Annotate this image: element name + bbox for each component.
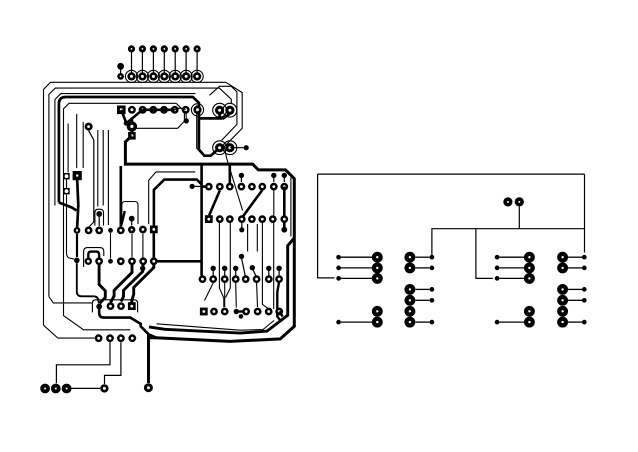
pad row y=230: [85, 226, 158, 235]
right half: power rectangle outline: [318, 174, 585, 278]
inner thick contour right-bottom: [149, 238, 294, 333]
donut row y=186.6: [205, 183, 288, 191]
outer board contour 1: [44, 82, 243, 338]
dumbbell dot below donut241: [239, 222, 244, 232]
thick trace donut219 to square208: [209, 191, 220, 216]
thin link donut273 down: [273, 191, 275, 216]
wire donut110 to big dot2: [56, 342, 110, 383]
connector block K2 pads: [404, 252, 434, 328]
board contour 5: [64, 103, 185, 329]
thick trace square153 down to row261: [154, 233, 202, 261]
clearance around thick vertical: [197, 105, 205, 156]
connector block K4 pads: [557, 252, 587, 328]
big donut pair lower with clearance: [213, 141, 237, 155]
small square pads pair left: [63, 173, 69, 194]
thick elbow trace E1: [99, 265, 105, 304]
clearance arch around pair: [84, 248, 104, 267]
bottom donut pad 104: [100, 384, 108, 392]
thick trace donut279 row311 to edge: [279, 312, 283, 317]
main thick board outline trace: [125, 136, 294, 342]
thin links rows 279-311: [205, 283, 258, 308]
inner contour hexagon: [209, 86, 237, 140]
trace from donut down: [89, 131, 94, 227]
connector block K1 pads: [336, 252, 382, 328]
big via donut C1: [127, 121, 137, 131]
inner section box outline: [154, 180, 202, 226]
thin verticals mid-left: [98, 130, 109, 225]
square pad P1: [117, 106, 126, 115]
thin links row219 to row268: [219, 223, 273, 309]
thick arch joining donuts 88-99: [88, 252, 99, 259]
wire to dot right of lower pair: [230, 145, 249, 150]
thick trace donut279 down right: [277, 282, 280, 320]
thick elbow trace E2: [111, 264, 133, 303]
thick trace down to donut 120: [120, 166, 123, 227]
thick stub second: [121, 211, 124, 225]
bus wire horizontal: [432, 207, 585, 279]
big donut pair top with clearance: [213, 103, 237, 117]
stub to donut row186: [202, 185, 205, 188]
clearance arch around thick pair: [122, 202, 138, 226]
thick vertical bus mid: [200, 165, 203, 276]
dumbbell dot under donut6: [184, 111, 189, 124]
dumbbell dot above donut 131: [129, 216, 135, 226]
pad row y=219: [205, 215, 288, 223]
bottom center donut pad: [144, 383, 153, 392]
donut row y=338: [95, 334, 137, 342]
clearance arch around dumbbell 99: [95, 209, 104, 225]
pad row y=279 dumbbells: [199, 254, 283, 283]
header connector J1 top dots: [128, 45, 201, 52]
dumbbell dot above donut 99: [96, 211, 102, 226]
thick elbow trace E3: [121, 264, 143, 302]
donut pads row2: [128, 106, 190, 114]
clearance contour mid-section bottom: [157, 321, 275, 331]
square pad under big via: [128, 132, 136, 140]
clearance verticals below row219: [248, 224, 258, 252]
wire big dot3 to donut104: [70, 387, 100, 389]
wire donut120 to donut104: [105, 342, 121, 384]
thick trace square to via chain: [121, 110, 174, 136]
test point pair TP1: [117, 63, 124, 80]
wires around square pads: [67, 114, 84, 259]
IC row pads y=110: [117, 104, 204, 116]
power pad pair: [503, 197, 524, 206]
header J1 bottom donut pads with clearance: [125, 70, 203, 82]
thick stub down to bottom donut: [147, 334, 150, 383]
three big dots bottom left: [40, 384, 71, 394]
connector block K3 pads: [495, 252, 535, 328]
thick diagonal donut262 to donut241: [243, 190, 263, 217]
big filled square pad: [73, 171, 82, 180]
clearance outline around pad group: [92, 300, 137, 313]
pad group y=306: [96, 302, 135, 310]
thin link donut5-donut6: [175, 108, 186, 110]
header J1 vertical wires: [132, 51, 198, 73]
board contour 3: [55, 94, 196, 206]
thick contour trace 4: [59, 97, 230, 211]
square pad row230: [150, 226, 158, 234]
donut pad left mid: [85, 123, 93, 131]
donut pad end col8: [191, 104, 203, 116]
clearance contour mid-section right: [290, 178, 292, 237]
via dot chain left: [74, 227, 99, 304]
dots above row186: [239, 173, 287, 182]
thick trace donut284 down to dot: [281, 187, 287, 233]
thick trace from dot99 to bottom edge: [99, 310, 157, 339]
thick trace donut229 up: [229, 164, 232, 183]
thick elbow trace E4: [132, 264, 154, 304]
wire dot to donut row186: [190, 184, 206, 189]
via dot: [124, 121, 129, 126]
inner section box clearance contour: [149, 172, 196, 224]
thin column links rows 230-261: [111, 233, 143, 259]
pad row y=261 left: [85, 257, 158, 271]
board contour 2: [49, 88, 231, 303]
thick trace big square down: [77, 180, 78, 230]
pad row y=311.5: [200, 308, 283, 319]
